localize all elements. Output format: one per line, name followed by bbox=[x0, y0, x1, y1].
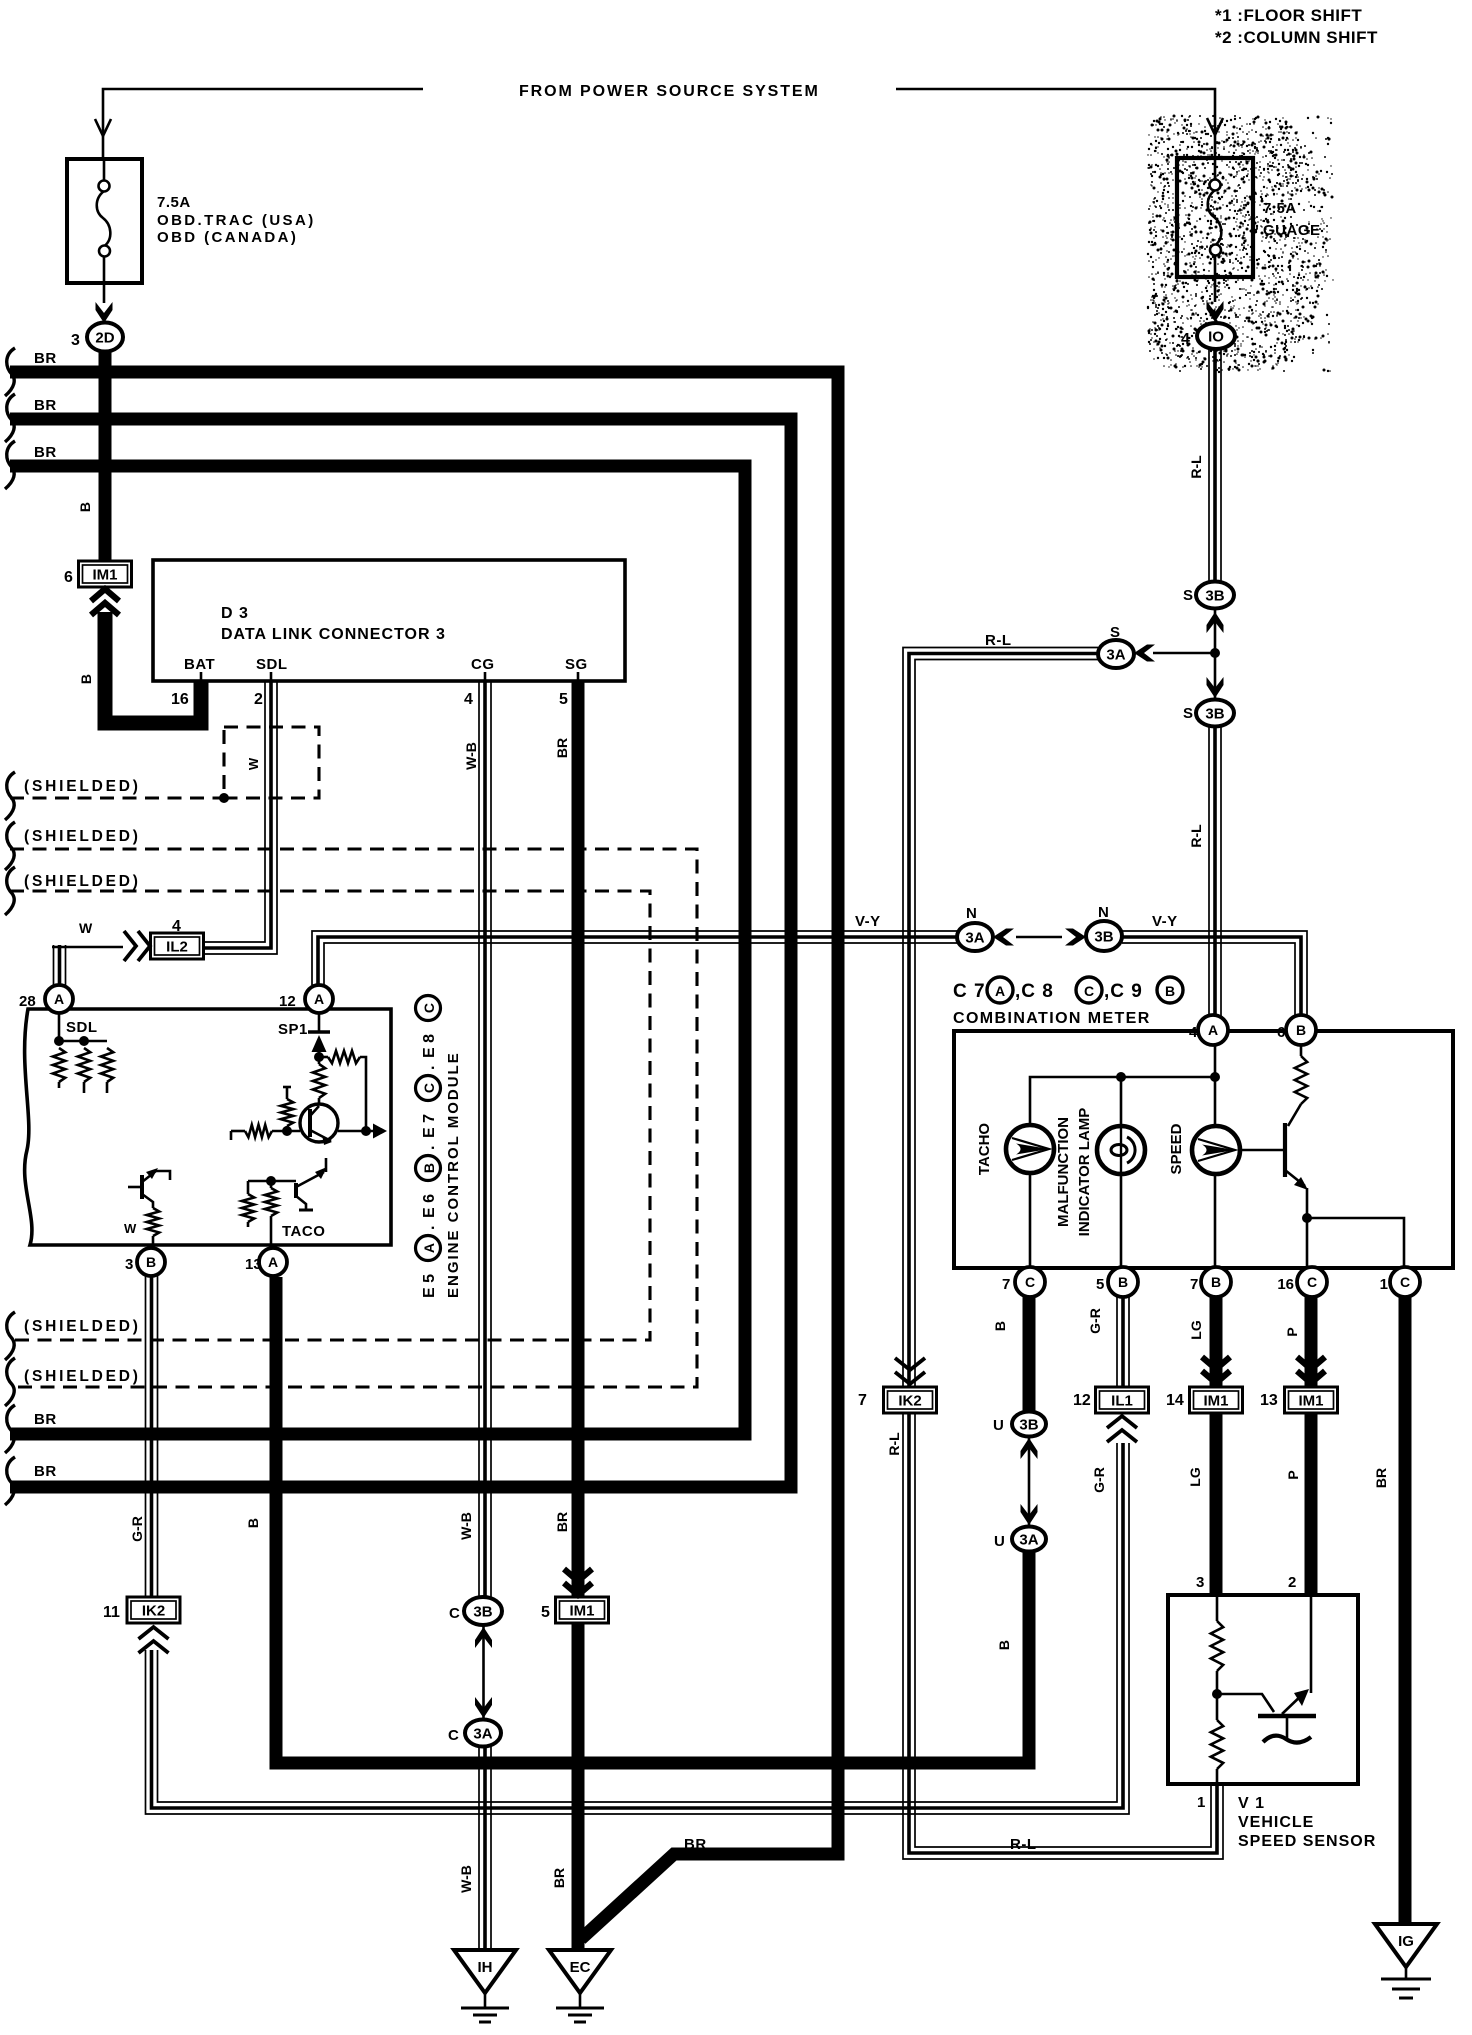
svg-text:3A: 3A bbox=[1106, 647, 1125, 664]
svg-text:E 7: E 7 bbox=[421, 1114, 438, 1138]
svg-text:1: 1 bbox=[1380, 1276, 1388, 1293]
svg-text:B: B bbox=[78, 674, 94, 684]
svg-text:7.5A: 7.5A bbox=[157, 194, 191, 211]
svg-text:12: 12 bbox=[279, 993, 296, 1010]
svg-text:SP1: SP1 bbox=[278, 1021, 308, 1038]
svg-text:2: 2 bbox=[1288, 1574, 1296, 1591]
svg-text:2: 2 bbox=[254, 691, 263, 708]
svg-text:IM1: IM1 bbox=[92, 567, 117, 584]
svg-text:C: C bbox=[448, 1727, 459, 1744]
svg-text:S: S bbox=[1183, 587, 1193, 604]
svg-text:3A: 3A bbox=[965, 930, 984, 947]
svg-text:W: W bbox=[79, 920, 93, 936]
svg-text:B: B bbox=[1211, 1274, 1221, 1290]
svg-text:5: 5 bbox=[541, 1604, 550, 1621]
svg-text:G-R: G-R bbox=[1087, 1308, 1103, 1334]
svg-text:A: A bbox=[995, 983, 1005, 999]
svg-text:4: 4 bbox=[1189, 1024, 1198, 1041]
svg-text:C: C bbox=[1084, 983, 1094, 999]
svg-text:G-R: G-R bbox=[1091, 1467, 1107, 1493]
svg-text:IK2: IK2 bbox=[898, 1393, 921, 1410]
svg-text:5: 5 bbox=[559, 691, 568, 708]
svg-text:BR: BR bbox=[34, 444, 57, 461]
svg-text:BR: BR bbox=[554, 1512, 570, 1532]
svg-text:DATA LINK CONNECTOR 3: DATA LINK CONNECTOR 3 bbox=[221, 626, 446, 643]
svg-text:R-L: R-L bbox=[886, 1432, 902, 1456]
svg-text:N: N bbox=[966, 905, 977, 922]
svg-text:C: C bbox=[1307, 1274, 1317, 1290]
svg-text:SDL: SDL bbox=[66, 1019, 98, 1036]
svg-text:B: B bbox=[1296, 1022, 1306, 1038]
svg-text:SG: SG bbox=[565, 656, 588, 673]
svg-text:B: B bbox=[245, 1518, 261, 1528]
svg-text:D 3: D 3 bbox=[221, 605, 249, 622]
svg-text:P: P bbox=[1284, 1327, 1300, 1336]
svg-text:6: 6 bbox=[64, 569, 73, 586]
svg-text:W-B: W-B bbox=[463, 742, 479, 770]
svg-text:U: U bbox=[993, 1417, 1004, 1434]
svg-text:3B: 3B bbox=[1205, 706, 1224, 723]
svg-text:.: . bbox=[421, 1066, 438, 1070]
svg-text:11: 11 bbox=[103, 1604, 120, 1621]
svg-text:S: S bbox=[1183, 705, 1193, 722]
svg-text:N: N bbox=[1098, 904, 1109, 921]
svg-text:MALFUNCTION: MALFUNCTION bbox=[1055, 1117, 1072, 1227]
svg-text:IG: IG bbox=[1398, 1933, 1414, 1950]
svg-text:IL1: IL1 bbox=[1111, 1393, 1133, 1410]
svg-text:7: 7 bbox=[1002, 1276, 1010, 1293]
svg-text:*2 :COLUMN SHIFT: *2 :COLUMN SHIFT bbox=[1215, 28, 1378, 47]
svg-text:C: C bbox=[421, 1003, 437, 1013]
svg-text:R-L: R-L bbox=[1010, 1836, 1037, 1853]
svg-text:BR: BR bbox=[1373, 1468, 1389, 1488]
svg-text:3: 3 bbox=[125, 1256, 133, 1273]
svg-text:1: 1 bbox=[1197, 1794, 1205, 1811]
svg-text:3A: 3A bbox=[1019, 1532, 1038, 1549]
svg-text:BR: BR bbox=[554, 738, 570, 758]
svg-text:13: 13 bbox=[245, 1256, 262, 1273]
svg-text:LG: LG bbox=[1188, 1320, 1204, 1340]
svg-text:E 6: E 6 bbox=[421, 1194, 438, 1218]
svg-text:P: P bbox=[1285, 1470, 1301, 1479]
svg-text:B: B bbox=[77, 502, 93, 512]
svg-text:7.5A: 7.5A bbox=[1263, 200, 1297, 217]
svg-text:V 1: V 1 bbox=[1238, 1795, 1265, 1812]
svg-text:14: 14 bbox=[1166, 1392, 1184, 1409]
svg-text:U: U bbox=[994, 1533, 1005, 1550]
svg-text:A: A bbox=[54, 991, 64, 1007]
svg-text:ENGINE CONTROL MODULE: ENGINE CONTROL MODULE bbox=[445, 1051, 462, 1298]
svg-text:B: B bbox=[1118, 1274, 1128, 1290]
svg-text:3: 3 bbox=[71, 332, 80, 349]
svg-text:16: 16 bbox=[1277, 1276, 1294, 1293]
svg-text:VEHICLE: VEHICLE bbox=[1238, 1814, 1314, 1831]
svg-text:4: 4 bbox=[464, 691, 473, 708]
svg-text:INDICATOR LAMP: INDICATOR LAMP bbox=[1076, 1108, 1093, 1237]
svg-text:SPEED SENSOR: SPEED SENSOR bbox=[1238, 1833, 1376, 1850]
svg-text:CG: CG bbox=[471, 656, 495, 673]
svg-text:A: A bbox=[314, 991, 324, 1007]
svg-text:R-L: R-L bbox=[1188, 455, 1204, 479]
svg-text:A: A bbox=[268, 1254, 278, 1270]
svg-text:B: B bbox=[992, 1321, 1008, 1331]
svg-text:4: 4 bbox=[172, 918, 181, 935]
svg-text:IM1: IM1 bbox=[569, 1603, 594, 1620]
svg-text:,C 8: ,C 8 bbox=[1015, 981, 1054, 1002]
svg-text:BR: BR bbox=[684, 1836, 707, 1853]
svg-text:4: 4 bbox=[1181, 331, 1190, 348]
svg-text:BR: BR bbox=[551, 1868, 567, 1888]
svg-text:W: W bbox=[124, 1221, 137, 1236]
svg-text:IK2: IK2 bbox=[142, 1603, 165, 1620]
svg-text:TACHO: TACHO bbox=[976, 1123, 993, 1176]
svg-text:GUAGE: GUAGE bbox=[1263, 222, 1321, 239]
svg-text:S: S bbox=[1110, 624, 1120, 641]
svg-text:IL2: IL2 bbox=[166, 939, 188, 956]
svg-text:(SHIELDED): (SHIELDED) bbox=[24, 1368, 141, 1385]
svg-text:SPEED: SPEED bbox=[1168, 1123, 1185, 1174]
svg-text:W-B: W-B bbox=[458, 1865, 474, 1893]
svg-text:G-R: G-R bbox=[129, 1516, 145, 1542]
svg-text:OBD.TRAC (USA): OBD.TRAC (USA) bbox=[157, 212, 316, 229]
svg-text:C: C bbox=[449, 1605, 460, 1622]
svg-text:16: 16 bbox=[171, 691, 189, 708]
svg-text:BR: BR bbox=[34, 397, 57, 414]
svg-text:13: 13 bbox=[1260, 1392, 1278, 1409]
svg-text:.: . bbox=[421, 1226, 438, 1230]
svg-text:IH: IH bbox=[478, 1959, 493, 1976]
svg-text:5: 5 bbox=[1096, 1276, 1104, 1293]
svg-text:E 8: E 8 bbox=[421, 1034, 438, 1058]
svg-text:6: 6 bbox=[1277, 1024, 1285, 1041]
svg-text:R-L: R-L bbox=[985, 632, 1012, 649]
svg-text:IM1: IM1 bbox=[1298, 1393, 1323, 1410]
svg-text:BR: BR bbox=[34, 350, 57, 367]
svg-text:BAT: BAT bbox=[184, 656, 215, 673]
svg-text:IO: IO bbox=[1208, 329, 1224, 346]
svg-text:COMBINATION METER: COMBINATION METER bbox=[953, 1010, 1151, 1027]
svg-text:EC: EC bbox=[570, 1959, 591, 1976]
svg-text:W-B: W-B bbox=[458, 1512, 474, 1540]
svg-text:3B: 3B bbox=[473, 1604, 492, 1621]
svg-text:28: 28 bbox=[19, 993, 36, 1010]
svg-text:C: C bbox=[1025, 1274, 1035, 1290]
svg-text:B: B bbox=[421, 1163, 437, 1173]
svg-text:(SHIELDED): (SHIELDED) bbox=[24, 828, 141, 845]
svg-text:7: 7 bbox=[1190, 1276, 1198, 1293]
svg-text:B: B bbox=[146, 1254, 156, 1270]
svg-text:E 5: E 5 bbox=[421, 1274, 438, 1298]
svg-text:3B: 3B bbox=[1094, 929, 1113, 946]
svg-text:C: C bbox=[1400, 1274, 1410, 1290]
svg-text:OBD (CANADA): OBD (CANADA) bbox=[157, 229, 298, 246]
svg-text:V-Y: V-Y bbox=[1152, 913, 1178, 930]
svg-text:3B: 3B bbox=[1205, 588, 1224, 605]
svg-text:W: W bbox=[246, 757, 261, 770]
svg-text:(SHIELDED): (SHIELDED) bbox=[24, 873, 141, 890]
svg-text:FROM POWER SOURCE SYSTEM: FROM POWER SOURCE SYSTEM bbox=[519, 83, 820, 100]
svg-text:BR: BR bbox=[34, 1411, 57, 1428]
svg-text:C: C bbox=[421, 1083, 437, 1093]
svg-text:V-Y: V-Y bbox=[855, 913, 881, 930]
svg-text:A: A bbox=[1208, 1022, 1218, 1038]
svg-text:3: 3 bbox=[1196, 1574, 1204, 1591]
svg-text:B: B bbox=[1165, 983, 1175, 999]
svg-text:(SHIELDED): (SHIELDED) bbox=[24, 1318, 141, 1335]
svg-text:7: 7 bbox=[858, 1392, 867, 1409]
svg-text:R-L: R-L bbox=[1188, 824, 1204, 848]
svg-text:IM1: IM1 bbox=[1203, 1393, 1228, 1410]
svg-text:SDL: SDL bbox=[256, 656, 288, 673]
svg-text:3B: 3B bbox=[1019, 1417, 1038, 1434]
svg-text:B: B bbox=[996, 1640, 1012, 1650]
svg-text:3A: 3A bbox=[473, 1726, 492, 1743]
svg-text:BR: BR bbox=[34, 1463, 57, 1480]
svg-text:C 7: C 7 bbox=[953, 981, 986, 1002]
svg-text:(SHIELDED): (SHIELDED) bbox=[24, 778, 141, 795]
svg-text:A: A bbox=[421, 1243, 437, 1253]
svg-text:TACO: TACO bbox=[282, 1223, 325, 1240]
svg-text:,C 9: ,C 9 bbox=[1104, 981, 1143, 1002]
svg-text:LG: LG bbox=[1187, 1467, 1203, 1487]
svg-text:.: . bbox=[421, 1146, 438, 1150]
svg-text:*1 :FLOOR SHIFT: *1 :FLOOR SHIFT bbox=[1215, 6, 1362, 25]
svg-text:12: 12 bbox=[1073, 1392, 1091, 1409]
svg-text:2D: 2D bbox=[95, 330, 114, 347]
